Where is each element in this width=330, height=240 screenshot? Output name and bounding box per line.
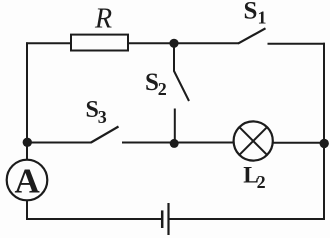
ammeter A bbox=[7, 160, 48, 201]
node junction middle-left (ammeter branch) bbox=[23, 138, 32, 147]
node junction top (S2 to top wire) bbox=[169, 39, 178, 48]
label L2 bbox=[243, 163, 265, 192]
svg-text:2: 2 bbox=[158, 79, 167, 99]
wire right side vertical bbox=[323, 43, 325, 220]
wire bottom left segment bbox=[26, 218, 161, 220]
switch S1 blade bbox=[238, 28, 266, 43]
label S3 bbox=[86, 97, 107, 127]
svg-text:1: 1 bbox=[258, 7, 267, 27]
svg-text:2: 2 bbox=[257, 172, 266, 192]
svg-text:3: 3 bbox=[98, 107, 107, 127]
svg-text:A: A bbox=[15, 161, 41, 200]
svg-text:S: S bbox=[244, 0, 258, 25]
wire middle left segment bbox=[27, 142, 92, 144]
wire resistor to S1 bbox=[128, 42, 239, 44]
wire bottom right segment bbox=[170, 218, 326, 220]
resistor R bbox=[71, 35, 128, 51]
label S1 bbox=[244, 0, 267, 27]
svg-text:R: R bbox=[94, 4, 112, 35]
node junction middle-right bbox=[320, 139, 329, 148]
wire S2 lower vertical bbox=[174, 109, 176, 145]
label S2 bbox=[145, 69, 167, 99]
wire left side vertical bbox=[26, 42, 28, 160]
switch S2 blade bbox=[174, 71, 189, 101]
wire S2 upper vertical bbox=[173, 43, 175, 71]
wire ammeter to bottom-left corner bbox=[26, 200, 28, 220]
wire S3 to lamp bbox=[122, 142, 234, 144]
battery cell bbox=[162, 203, 168, 235]
wire lamp to right side bbox=[273, 142, 324, 144]
node junction middle (S2 to middle wire) bbox=[170, 139, 179, 148]
lamp L2 bbox=[234, 121, 273, 160]
switch S3 blade bbox=[91, 127, 119, 143]
wire S1 to top-right corner bbox=[268, 43, 326, 45]
wire top-left horizontal segment bbox=[26, 42, 72, 44]
